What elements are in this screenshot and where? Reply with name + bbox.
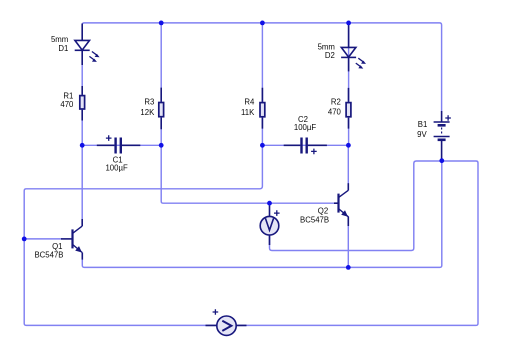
svg-text:R1: R1 [63, 91, 73, 100]
svg-text:12K: 12K [140, 108, 155, 117]
svg-text:100µF: 100µF [294, 123, 317, 132]
svg-text:R4: R4 [244, 97, 255, 106]
svg-text:Q2: Q2 [318, 206, 328, 215]
svg-text:D1: D1 [58, 44, 68, 53]
svg-text:R2: R2 [331, 98, 341, 107]
svg-text:BC547B: BC547B [34, 251, 63, 260]
svg-text:R3: R3 [144, 97, 154, 106]
svg-text:B1: B1 [418, 120, 428, 129]
svg-text:Q1: Q1 [52, 242, 62, 251]
svg-text:11K: 11K [241, 108, 255, 117]
svg-text:D2: D2 [325, 51, 335, 60]
svg-text:470: 470 [60, 100, 74, 109]
svg-text:5mm: 5mm [51, 35, 68, 44]
svg-text:470: 470 [328, 107, 342, 116]
svg-text:BC547B: BC547B [300, 215, 329, 224]
svg-text:9V: 9V [417, 130, 427, 139]
svg-text:100µF: 100µF [105, 164, 128, 173]
